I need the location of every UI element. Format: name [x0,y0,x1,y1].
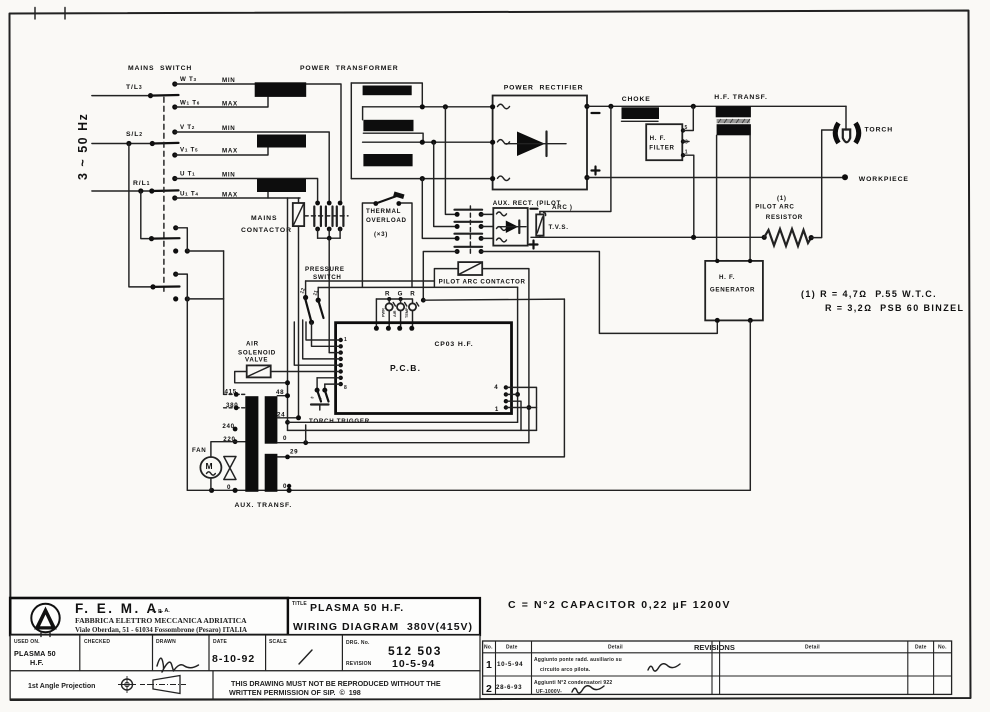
wire HF generator right to bottom rail [749,320,751,490]
aux rectifier contact row 2 [455,222,494,229]
svg-text:T.V.S.: T.V.S. [549,224,569,231]
svg-text:H. F.: H. F. [650,135,666,142]
svg-text:MIN: MIN [222,172,235,179]
svg-text:48: 48 [276,389,284,396]
wire 0 tap bottom [283,483,291,490]
svg-text:1: 1 [344,337,347,343]
H.F. transformer secondary bar [717,124,751,135]
label aux rect minus [531,208,538,210]
H.F. filter pin 3 [681,139,689,145]
svg-text:PILOT ARC: PILOT ARC [755,204,794,211]
wire control row y287 [318,286,517,288]
wire control drop x517.6 [515,287,520,422]
wire contact row4 to HF generator [481,252,717,334]
mains switch pole T blade [148,93,179,98]
svg-text:s. p. A.: s. p. A. [152,608,170,614]
wire bottom rail y490 [187,488,750,493]
aux rectifier box [493,208,527,246]
transformer secondary core [351,83,422,179]
torch symbol [835,123,859,143]
svg-text:MAX: MAX [222,192,238,199]
svg-text:MAINS: MAINS [251,215,277,222]
PCB left pin 2 [312,322,343,348]
svg-text:AIR: AIR [393,310,397,317]
aux transformer secondary bar top [265,396,278,444]
svg-text:0: 0 [283,435,287,442]
svg-text:3 ~ 50 Hz: 3 ~ 50 Hz [76,113,90,180]
svg-text:REVISIONS: REVISIONS [694,643,735,652]
wire U1 T4 MAX row [172,191,300,201]
PCB left pin 5 [294,322,343,367]
svg-text:PRESSURE: PRESSURE [305,266,345,273]
node R/L1 phase input [92,180,164,191]
label plus output [592,167,600,175]
svg-text:W T3: W T3 [180,76,197,83]
node S/L2 phase input [92,131,152,144]
svg-text:H.F.: H.F. [30,658,44,667]
wire aux pole P1 down to 415/380 taps [223,251,225,394]
torch trigger switch [310,378,328,410]
svg-text:R/L1: R/L1 [133,180,150,187]
wire tap row1 down to contact row1 [445,107,457,215]
wire coil down to 24 tap [298,226,300,418]
svg-text:10-5-94: 10-5-94 [392,658,435,670]
wire pilot coil left loop [434,269,458,288]
wire nest row y430 [288,429,537,431]
wire secondary row 2 to rectifier [363,140,493,145]
mains contactor gang dashed link [304,215,348,217]
svg-text:8-10-92: 8-10-92 [212,653,255,665]
svg-text:THIS DRAWING MUST NOT BE REPRO: THIS DRAWING MUST NOT BE REPRODUCED WITH… [231,679,441,688]
resistor pilot arc R1 [764,229,811,246]
mains contactor contact pole 1 [314,201,321,239]
wire torch feed drop [845,106,847,130]
wire resistor to torch [809,130,834,240]
label AUX. RECT. (PILOT ARC) [493,200,573,211]
svg-text:4: 4 [494,384,498,391]
svg-text:Aggiunti N°2 condensatori 9: Aggiunti N°2 condensatori 922 [534,680,612,686]
svg-text:WRITTEN PERMISSION OF SIP. ©: WRITTEN PERMISSION OF SIP. © 198 [229,688,361,697]
svg-text:Viale Oberdan, 51 - 61034 Foss: Viale Oberdan, 51 - 61034 Fossombrone (P… [75,626,247,634]
svg-text:No.: No. [938,645,947,651]
fan motor M1 [200,442,235,491]
svg-text:380: 380 [226,402,238,409]
transformer primary winding V [257,135,306,148]
svg-text:ARC ): ARC ) [552,204,573,211]
svg-text:24: 24 [277,412,285,419]
mains switch pole R blade [138,188,178,193]
svg-text:MIN: MIN [222,125,235,132]
lamp feed dots on PCB [374,326,414,331]
revision row 2 [486,680,612,695]
PCB left pin 7 [317,376,343,380]
PCB right pin 1 [495,405,537,413]
svg-text:TITLE: TITLE [292,601,307,607]
svg-text:C = N°2 CAPACITOR 0,22 µF 1200: C = N°2 CAPACITOR 0,22 µF 1200V [508,599,731,611]
svg-text:29: 29 [290,449,298,456]
svg-text:U1 T4: U1 T4 [180,191,199,198]
svg-text:WIRING DIAGRAM 380V(415V): WIRING DIAGRAM 380V(415V) [293,621,473,633]
wire tap row3 down to contact row3 [422,179,457,239]
wire V T2 MIN row [172,124,329,203]
label (1) PILOT ARC RESISTOR [755,195,803,221]
wire 48 tap [276,389,290,398]
transformer primary winding U [257,179,306,192]
svg-text:R: R [410,291,415,298]
node T/L3 phase input [92,84,151,96]
choke L1 [622,107,660,121]
title block row2 dividers [80,635,343,671]
junction solenoid on vertical C [285,380,290,385]
wire 415/380 tap dashes [224,392,246,410]
svg-text:1: 1 [486,659,493,671]
svg-text:8: 8 [344,385,347,391]
pilot arc contactor coil K2 [458,262,482,275]
wire 0 tap mid row y443 [277,435,529,445]
wire aux vertical C from U MAX row [287,198,289,430]
svg-text:R: R [385,291,390,298]
label PRESSURE SWITCH [305,266,345,281]
svg-text:AUX. RECT. (PILOT: AUX. RECT. (PILOT [493,200,561,207]
svg-text:1: 1 [495,406,499,413]
drg no cell [346,640,442,670]
svg-text:CHECKED: CHECKED [84,639,110,645]
label resistor values note [801,289,964,313]
svg-text:circuito arco pilota.: circuito arco pilota. [540,667,591,673]
svg-text:512 503: 512 503 [388,644,442,658]
H.F. transformer primary bar [716,106,751,117]
svg-text:415: 415 [225,389,237,396]
svg-text:M: M [206,461,214,471]
PCB right pin c [504,399,521,430]
title cell text [292,601,473,633]
mains switch aux pole P2 [129,144,224,302]
svg-text:28-6-93: 28-6-93 [496,684,522,691]
wire pressure switch to 0 row [305,425,307,443]
aux rectifier diode [499,221,526,234]
svg-text:R = 3,2Ω PSB 60 BINZEL: R = 3,2Ω PSB 60 BINZEL [825,303,964,313]
svg-text:REVISION: REVISION [346,661,372,667]
svg-text:GENERATOR: GENERATOR [710,287,755,294]
label AIR SOLENOID VALVE [238,341,276,364]
svg-text:W1 T6: W1 T6 [180,100,200,107]
svg-text:WORKPIECE: WORKPIECE [859,176,909,183]
revisions header labels [484,643,947,652]
wire V1 T5 MAX row [172,147,268,158]
svg-text:MAX: MAX [222,101,238,108]
air solenoid valve coil Y1 [247,365,271,377]
wire pilot coil right loop [482,269,531,443]
wire HF transformer secondary to HF generator [717,135,751,261]
svg-text:POWER RECTIFIER: POWER RECTIFIER [504,85,584,92]
svg-text:(1): (1) [777,195,787,202]
svg-text:T/L3: T/L3 [126,84,143,91]
svg-text:PLASMA 50 H.F.: PLASMA 50 H.F. [310,602,404,614]
wire DC plus / workpiece line [584,174,848,180]
wire U T1 MIN row [172,171,317,204]
wire W1 T6 MAX row [172,97,268,110]
svg-text:2: 2 [486,683,493,695]
svg-text:THERMAL: THERMAL [366,208,401,215]
svg-text:FAN: FAN [192,447,206,454]
svg-text:DATE: DATE [213,639,228,645]
wire coil feed from U MAX row [298,198,300,203]
aux transformer primary bar [245,396,258,492]
wire aux pole P2 down to fan rail [186,299,188,490]
mains switch dashed gang line [163,97,165,292]
mains contactor contact pole 2 [326,201,333,239]
wire W T3 MIN row [172,76,341,203]
svg-text:1: 1 [685,150,688,156]
scale cell [269,639,312,664]
fan blades [224,457,236,480]
svg-text:S/L2: S/L2 [126,131,143,138]
wire DC minus rail [584,104,846,109]
H.F. transformer core gray bar [717,119,751,123]
indicator lamp 3 [405,299,419,328]
power rectifier AC input marks [490,104,510,181]
mains contactor coil K1 [293,203,304,226]
indicator lamp 2 [393,299,407,328]
wire contactor bottom join [318,236,341,353]
svg-text:No.: No. [484,645,493,651]
label F.E.M.A. company [75,601,247,634]
svg-text:RESISTOR: RESISTOR [766,214,803,221]
lamp bus R G R [376,291,415,329]
copyright cell [212,671,214,699]
svg-text:(1) R = 4,7Ω P.55 W.T.C.: (1) R = 4,7Ω P.55 W.T.C. [801,289,937,299]
svg-text:POWER TRANSFORMER: POWER TRANSFORMER [300,65,399,72]
mains contactor contact pole 3 [337,201,344,239]
label minus output [592,112,600,114]
revision row 1 [486,657,680,673]
svg-text:DRAWN: DRAWN [156,639,176,645]
transformer secondary winding 3 [363,154,412,166]
wire nest row y422 [285,420,517,425]
svg-text:U T1: U T1 [180,171,195,178]
svg-text:5: 5 [685,125,688,131]
svg-text:(×3): (×3) [374,231,388,238]
used on cell [14,639,56,667]
wire control row y300 [421,298,565,303]
svg-text:0: 0 [283,483,287,490]
svg-text:P.C.B.: P.C.B. [390,363,421,373]
PCB left pin 1 [306,322,347,343]
H.F. filter box [646,124,682,160]
svg-text:H. F.: H. F. [719,274,735,281]
svg-text:OVERLOAD: OVERLOAD [366,217,407,224]
wire secondary row 3 to rectifier [351,176,492,181]
wire 29 tap row y457 [277,299,564,459]
svg-text:MAX: MAX [222,148,238,155]
title block FEMA box [10,598,480,699]
transformer secondary winding 1 [363,86,412,96]
svg-text:CP03 H.F.: CP03 H.F. [435,341,474,348]
drawn cell + signature [156,639,199,672]
wire tap row2 down to contact row2 [434,142,457,226]
aux rectifier contact row 1 [455,210,494,217]
svg-text:TORCH TRIGGER: TORCH TRIGGER [309,418,370,425]
svg-text:SWITCH: SWITCH [313,274,342,281]
svg-text:Detail: Detail [608,645,623,651]
svg-text:TEMP: TEMP [405,307,409,318]
svg-text:VALVE: VALVE [245,357,268,364]
svg-text:V T2: V T2 [180,124,195,131]
svg-text:Aggiunto ponte radd. ausiliari: Aggiunto ponte radd. ausiliario su [534,657,622,663]
svg-text:PLASMA 50: PLASMA 50 [14,649,56,658]
indicator lamp 1 [382,299,396,328]
mains switch pole S blade [126,141,178,146]
wire secondary winding2 bottom hook [363,133,423,142]
svg-text:PWR: PWR [382,308,386,317]
svg-text:DRG. No.: DRG. No. [346,640,370,646]
PCB left pin 4 [303,320,343,361]
date cell [212,639,255,665]
PCB right pin 4 [494,384,536,430]
wire pressure switch feed row y281 [306,280,435,282]
H.F. filter pin 5 [681,106,694,132]
svg-text:FILTER: FILTER [649,145,674,152]
svg-text:H.F. TRANSF.: H.F. TRANSF. [714,94,767,101]
svg-text:SCALE: SCALE [269,639,287,645]
PCB right pin b [504,392,518,396]
FEMA logo [31,604,59,637]
transformer secondary winding 2 [363,120,413,131]
svg-text:Date: Date [506,645,518,651]
svg-text:CONTACTOR: CONTACTOR [241,227,292,234]
thermal overload box [362,192,412,288]
svg-text:AUX. TRANSF.: AUX. TRANSF. [235,502,293,509]
wire secondary row 1 to rectifier [363,104,493,120]
wire aux rect minus link [540,106,611,211]
svg-text:10-5-94: 10-5-94 [497,661,523,668]
wire pilot arc supply row y237 [531,235,767,240]
svg-text:MIN: MIN [222,77,235,84]
wire contact row4 left branch [423,252,457,301]
svg-text:USED ON.: USED ON. [14,639,40,645]
contact gang dashed vertical [469,206,471,256]
revisions table [483,641,952,694]
aux transformer secondary bar bottom [265,454,278,492]
PCB box CP03 H.F. [336,323,512,414]
svg-text:3: 3 [685,140,688,146]
transformer primary winding W [255,82,307,97]
svg-text:0: 0 [227,484,231,491]
svg-text:FABBRICA ELETTRO MECCANICA ADR: FABBRICA ELETTRO MECCANICA ADRIATICA [75,616,247,625]
power rectifier diode [505,132,566,157]
svg-text:Date: Date [915,645,927,651]
T.V.S. varistor [536,212,568,238]
svg-text:Detail: Detail [805,645,820,651]
label aux rect plus [530,241,538,249]
svg-text:V1 T5: V1 T5 [180,147,198,154]
pressure switch contact [299,281,323,325]
PCB left pin 6 [271,369,343,373]
wire solenoid left loop [235,372,288,383]
PCB left pin 8 [325,382,347,391]
aux rectifier contact row 3 [455,234,494,241]
label MAINS CONTACTOR [241,215,292,234]
H.F. filter pin 1 [681,150,694,238]
1st angle projection cell [28,676,186,694]
label 220 tap [223,436,245,444]
svg-text:PILOT ARC CONTACTOR: PILOT ARC CONTACTOR [439,279,526,286]
mains switch aux pole P1 [141,191,224,254]
svg-text:AIR: AIR [246,341,259,348]
aux rectifier contact row 4 [455,247,484,254]
svg-text:CHOKE: CHOKE [622,96,651,103]
svg-text:1st Angle Projection: 1st Angle Projection [28,683,95,690]
H.F. generator box [705,259,763,323]
svg-text:G: G [398,291,404,298]
svg-text:SOLENOID: SOLENOID [238,350,276,357]
svg-text:UF-1000V-: UF-1000V- [536,689,562,695]
power rectifier box [493,85,587,190]
PCB left pin 3 [329,350,343,354]
label 240 tap [222,423,237,431]
svg-text:TORCH: TORCH [865,127,894,134]
wire 24 tap [277,412,301,421]
svg-text:MAINS SWITCH: MAINS SWITCH [128,65,192,72]
